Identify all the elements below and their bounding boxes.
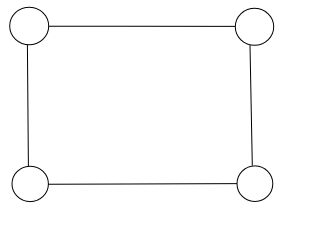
node top-left	[10, 7, 49, 44]
wire right edge	[250, 45, 252, 165]
wire top edge	[49, 25, 236, 27]
wire left edge	[27, 45, 28, 166]
node bottom-right	[237, 166, 273, 202]
wire bottom edge	[48, 183, 237, 186]
node bottom-left	[12, 166, 48, 201]
node top-right	[235, 8, 273, 45]
